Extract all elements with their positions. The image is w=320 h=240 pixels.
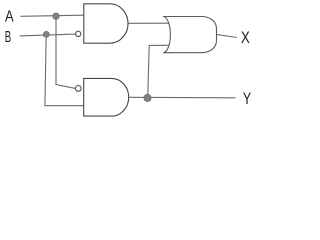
inversion bubble on U2 upper input xyxy=(75,86,81,92)
junction dot on A wire xyxy=(53,13,59,19)
svg-text:X: X xyxy=(241,29,250,48)
wire A input horizontal xyxy=(21,15,84,16)
wire from Y junction up to OR lower input xyxy=(148,45,170,97)
AND gate U1 (top) xyxy=(84,4,128,43)
junction dot on B wire xyxy=(43,31,49,37)
wire B input horizontal xyxy=(20,34,76,36)
svg-text:B: B xyxy=(5,28,11,46)
wire U2 output to Y xyxy=(129,96,236,99)
wire from A junction down to bottom gate bubble xyxy=(56,16,75,88)
svg-text:A: A xyxy=(5,8,14,26)
AND gate U2 (bottom) xyxy=(84,78,129,116)
junction dot on Y wire xyxy=(144,94,151,101)
svg-text:Y: Y xyxy=(243,90,251,108)
wire from B junction down then right to bottom gate lower input xyxy=(45,35,84,106)
wire OR output to X xyxy=(216,34,237,37)
wire U1 output to OR input xyxy=(128,22,170,24)
inversion bubble on U1 lower input xyxy=(76,31,81,36)
OR gate U3 xyxy=(163,17,216,53)
